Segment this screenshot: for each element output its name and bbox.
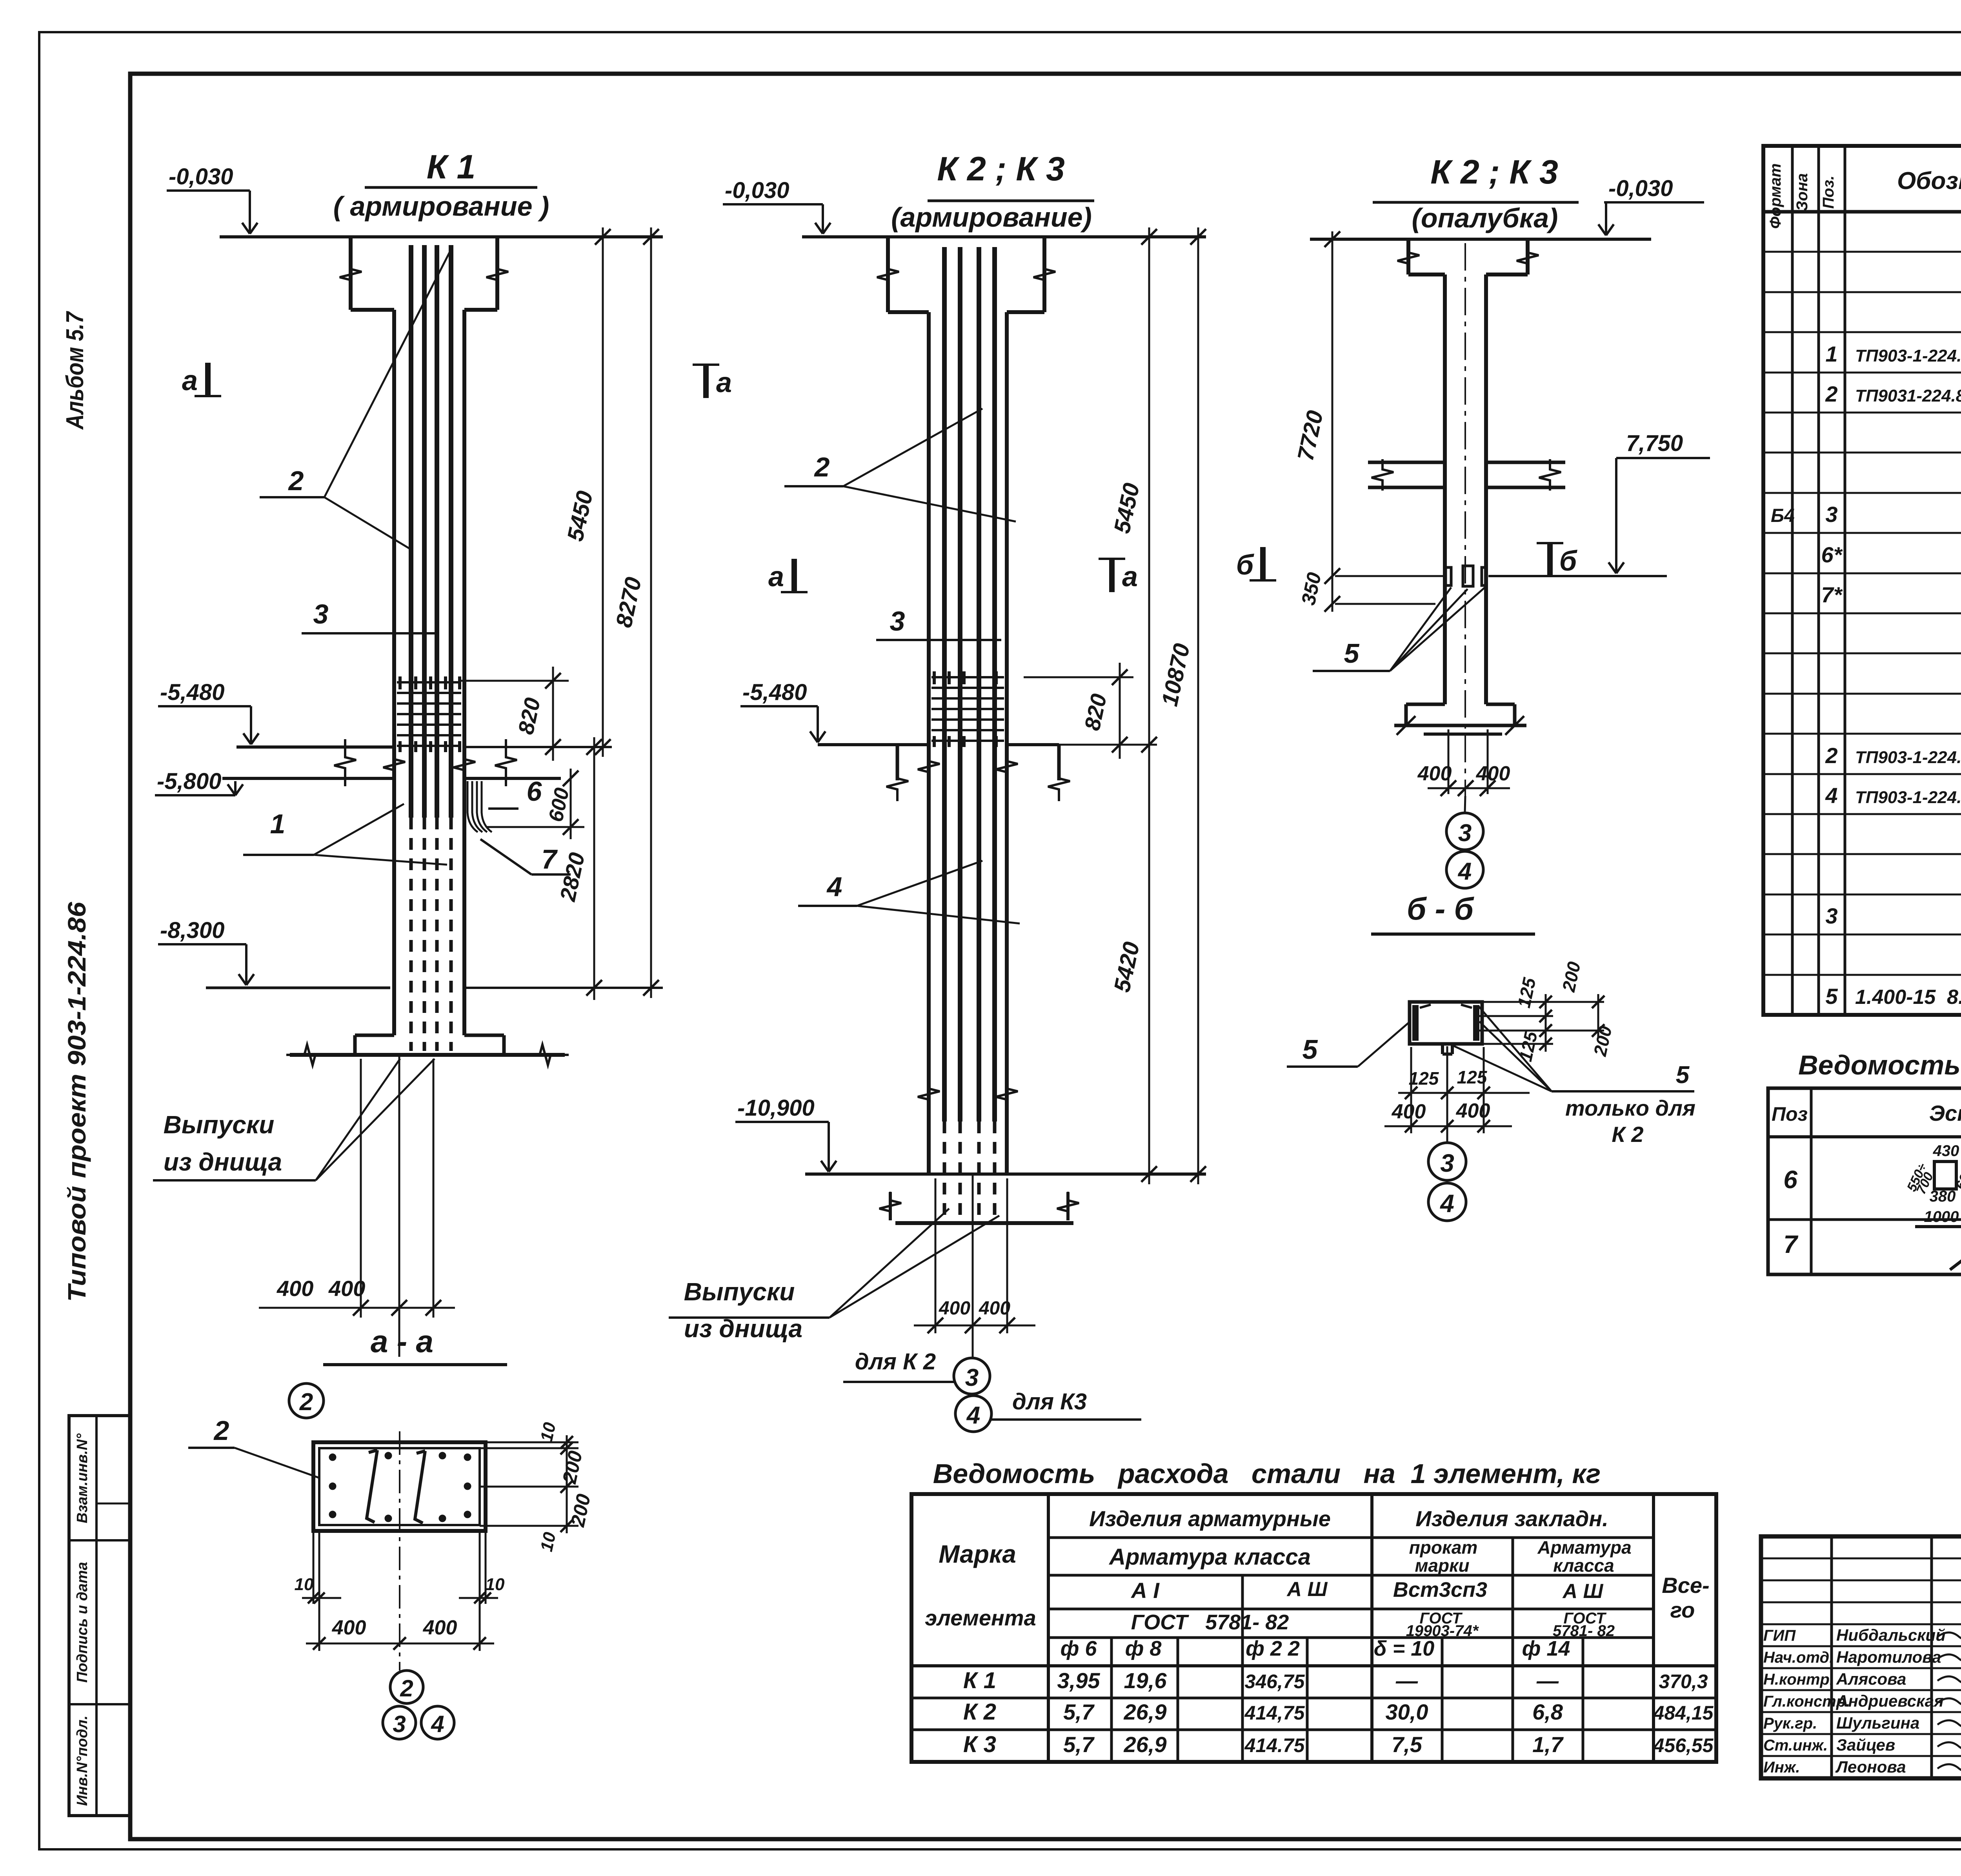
K2 ground line [802,235,1206,238]
svg-text:6*: 6* [1821,542,1843,567]
K1 section mark a left [205,363,211,396]
K2 dim 5420 [1148,745,1150,1184]
svg-text:5450: 5450 [1109,481,1144,536]
svg-text:ТП903-1-224.86 КЖ4И К 1.200: ТП903-1-224.86 КЖ4И К 1.200 [1855,748,1961,767]
svg-text:Арматура: Арматура [1537,1537,1631,1558]
svg-text:Алясова: Алясова [1836,1670,1906,1688]
svg-text:820: 820 [513,696,545,736]
svg-text:Выпуски: Выпуски [684,1278,795,1306]
svg-text:-5,480: -5,480 [160,680,224,705]
svg-text:К 2 ; К 3: К 2 ; К 3 [937,150,1065,188]
svg-text:ф 6: ф 6 [1061,1637,1097,1660]
a-a bottom dims [313,1531,315,1604]
svg-text:7,750: 7,750 [1626,431,1683,456]
svg-text:200: 200 [1590,1024,1616,1058]
svg-text:ТП903-1-224.86 КЖ4.И К 2 100: ТП903-1-224.86 КЖ4.И К 2 100 [1855,788,1961,807]
svg-text:2820: 2820 [555,850,589,903]
svg-text:4: 4 [1439,1189,1454,1218]
title block frame [1761,1536,1961,1778]
svg-text:Обозначение: Обозначение [1897,167,1961,195]
opalubka embedded plates pos.5 [1446,567,1451,585]
svg-text:ТП903-1-224.86 КЖ4.И.Км1.100: ТП903-1-224.86 КЖ4.И.Км1.100 [1855,346,1961,365]
svg-text:Ведомость расхода стали: Ведомость расхода стали на 1 элемент, кг [933,1458,1601,1489]
svg-text:1: 1 [1825,342,1837,366]
svg-text:3: 3 [1825,502,1837,527]
svg-text:Леонова: Леонова [1835,1758,1906,1776]
svg-text:400: 400 [1392,1100,1426,1123]
svg-text:400: 400 [939,1298,970,1319]
K2 section mark a mid-right [1109,559,1115,592]
K2 dims 400 400 under footing [935,1178,937,1333]
svg-text:Арматура класса: Арматура класса [1108,1544,1311,1570]
svg-text:2: 2 [1825,382,1837,406]
svg-text:—: — [1395,1668,1418,1693]
svg-text:400: 400 [1417,762,1452,785]
svg-text:марки: марки [1415,1555,1469,1576]
opalubka dims 400 400 [1448,729,1450,794]
svg-text:26,9: 26,9 [1124,1732,1167,1757]
svg-text:—: — [1536,1668,1559,1693]
a-a rebar dots [329,1454,336,1461]
svg-text:5: 5 [1825,984,1838,1009]
svg-text:а: а [716,367,732,398]
a-a right dims [486,1442,578,1443]
svg-text:430: 430 [1933,1142,1959,1160]
a-a circled axis 4 [421,1706,454,1739]
svg-text:Эскиз: Эскиз [1929,1101,1961,1125]
svg-text:19,6: 19,6 [1124,1668,1167,1693]
svg-text:820: 820 [1079,692,1111,733]
K1 dim 600 [570,769,572,839]
K1 footing [355,1034,394,1037]
K2 section mark a mid-left [791,559,797,592]
svg-text:400: 400 [332,1616,366,1639]
svg-text:456,55: 456,55 [1653,1734,1714,1756]
K1 stirrup zone pos.3 [397,681,461,684]
opalubka ground line [1310,238,1651,241]
b-b bottom tab [1441,1044,1444,1054]
svg-text:а: а [182,365,198,396]
K1 dim 2820 [593,737,595,1000]
svg-text:Выпуски: Выпуски [164,1111,275,1139]
svg-text:400: 400 [328,1276,365,1301]
svg-text:10: 10 [486,1575,505,1594]
K1 dim 8270 [650,227,652,998]
svg-text:Инв.N°подл.: Инв.N°подл. [74,1716,91,1806]
svg-text:Б4: Б4 [1771,505,1795,526]
a-a inner box [319,1448,480,1525]
b-b bottom dims 125 125 [1410,1047,1412,1133]
svg-text:3: 3 [965,1364,979,1391]
svg-text:Ведомость деталей: Ведомость деталей [1798,1050,1961,1080]
svg-text:7720: 7720 [1293,408,1328,463]
b-b circled axis 4 [1428,1183,1466,1221]
svg-text:Зайцев: Зайцев [1836,1736,1895,1754]
svg-text:Вст3сп3: Вст3сп3 [1393,1578,1487,1602]
section mark b right of opalubka [1547,543,1553,576]
K1 pos.6 hook bundle [468,781,478,832]
opalubka middle console [1368,461,1445,464]
svg-text:400: 400 [277,1276,313,1301]
a-a circled axis 3 [383,1706,416,1739]
svg-text:5: 5 [1676,1062,1690,1089]
svg-text:7*: 7* [1821,582,1843,607]
svg-text:4: 4 [1457,858,1472,885]
svg-text:5,7: 5,7 [1063,1700,1095,1724]
svg-text:элемента: элемента [925,1605,1036,1630]
opalubka circled axis 3 [1446,813,1483,850]
svg-text:А Ш: А Ш [1562,1580,1604,1603]
svg-text:2: 2 [1825,743,1837,768]
svg-text:-5,800: -5,800 [157,769,221,794]
svg-text:5420: 5420 [1109,940,1144,994]
K2 circled axis 3 for K2 [954,1358,990,1394]
svg-text:-5,480: -5,480 [742,680,807,705]
svg-text:10870: 10870 [1157,641,1195,708]
svg-text:Все-: Все- [1662,1573,1709,1598]
K2 footing body [895,1221,1073,1225]
opalubka top flare [1406,239,1410,274]
svg-text:ф 8: ф 8 [1125,1637,1162,1660]
svg-text:Нибдальский: Нибдальский [1836,1626,1946,1644]
svg-text:Наротилова: Наротилова [1836,1648,1941,1666]
svg-text:4: 4 [966,1402,980,1429]
b-b box [1410,1002,1482,1044]
svg-text:7: 7 [1783,1230,1799,1258]
svg-text:3: 3 [890,606,905,636]
svg-text:600: 600 [544,786,574,824]
svg-text:б: б [1236,549,1255,581]
svg-text:-8,300: -8,300 [160,918,224,943]
svg-text:б: б [1559,545,1578,577]
svg-text:Типовой проект 903-1-224.86: Типовой проект 903-1-224.86 [63,902,91,1302]
K1 circled axis 2 [289,1383,324,1418]
svg-text:4: 4 [826,871,842,902]
steel table frame [911,1494,1716,1762]
vedomost detaley table [1768,1088,1961,1274]
svg-text:δ = 10: δ = 10 [1374,1637,1435,1660]
left margin stamp boxes [69,1416,130,1816]
svg-text:3: 3 [393,1711,406,1737]
svg-text:5: 5 [1302,1034,1318,1065]
K1 upper column outline [349,237,353,310]
specification table frame [1763,146,1961,1015]
svg-text:125: 125 [1409,1068,1439,1089]
opalubka bottom flare [1406,703,1445,706]
svg-text:125: 125 [1513,975,1540,1009]
svg-text:6: 6 [527,776,542,807]
svg-text:1000: 1000 [1924,1208,1959,1225]
svg-text:Андриевская: Андриевская [1836,1692,1944,1710]
K2 dim 5450 [1148,227,1150,757]
svg-text:8270: 8270 [611,575,646,630]
K2 footing at -10,900 [805,1172,1206,1176]
svg-text:4: 4 [431,1711,444,1737]
svg-text:( армирование ): ( армирование ) [333,191,549,222]
K2 dim 820 [1024,676,1133,678]
svg-text:-0,030: -0,030 [725,178,789,203]
svg-text:ТП9031-224.86 КЖ4.И.Км1.200: ТП9031-224.86 КЖ4.И.Км1.200 [1855,386,1961,405]
svg-text:Зона: Зона [1794,173,1811,211]
svg-text:прокат: прокат [1409,1537,1478,1558]
svg-text:-10,900: -10,900 [737,1095,815,1121]
svg-text:ф 2 2: ф 2 2 [1246,1637,1300,1660]
svg-text:ф 14: ф 14 [1522,1637,1570,1660]
svg-text:Инж.: Инж. [1763,1759,1800,1776]
svg-text:го: го [1670,1598,1695,1622]
svg-text:Рук.гр.: Рук.гр. [1763,1715,1817,1732]
svg-text:Формат: Формат [1767,164,1784,229]
K2 lower column outline [927,312,931,1174]
svg-text:Поз.: Поз. [1820,176,1837,209]
svg-text:Изделия арматурные: Изделия арматурные [1089,1506,1331,1531]
K2 slab stubs at -5,480 [818,743,929,746]
svg-text:(армирование): (армирование) [891,202,1092,233]
opalubka dim 350 [1324,596,1340,612]
svg-text:-0,030: -0,030 [1608,176,1673,201]
svg-text:200: 200 [558,1449,586,1486]
svg-text:370,3: 370,3 [1659,1671,1708,1692]
svg-text:484,15: 484,15 [1653,1702,1714,1724]
svg-text:380: 380 [1930,1188,1956,1205]
svg-text:10: 10 [537,1530,560,1553]
K1 slab at -5,480 [236,745,394,749]
svg-text:1,7: 1,7 [1532,1732,1564,1757]
svg-text:2: 2 [814,452,830,482]
svg-text:125: 125 [1457,1067,1488,1087]
svg-text:Изделия закладн.: Изделия закладн. [1415,1506,1608,1531]
K1 ground line -0,030 [220,235,663,238]
K1 lower column outline [392,310,396,1035]
svg-text:К 1: К 1 [427,148,476,186]
svg-text:2: 2 [213,1415,229,1446]
svg-text:а - а: а - а [371,1324,433,1359]
svg-text:3: 3 [313,599,329,629]
svg-text:30,0: 30,0 [1386,1700,1428,1724]
svg-text:400: 400 [979,1298,1010,1319]
svg-text:-0,030: -0,030 [169,164,233,189]
svg-text:Подпись и дата: Подпись и дата [74,1562,91,1683]
svg-text:400: 400 [423,1616,457,1639]
K2 dim 10870 [1197,227,1199,1184]
svg-text:3,95: 3,95 [1057,1668,1101,1693]
svg-text:1.400-15 8.1: 1.400-15 8.1 [1855,986,1961,1009]
svg-text:400: 400 [1476,762,1510,785]
svg-text:К 2: К 2 [963,1699,996,1725]
svg-text:200: 200 [1558,960,1584,994]
a-a stirrup hooks [367,1450,377,1522]
svg-text:Нач.отд.: Нач.отд. [1763,1649,1834,1666]
svg-text:класса: класса [1553,1555,1614,1576]
svg-text:3: 3 [1825,903,1837,928]
svg-text:Шульгина: Шульгина [1836,1714,1919,1732]
K1 dim 5450 [602,227,604,757]
svg-text:для К3: для К3 [1012,1389,1087,1414]
svg-text:414,75: 414,75 [1244,1702,1305,1724]
K2 stirrup zone [931,676,1004,678]
svg-text:К 2 ; К 3: К 2 ; К 3 [1430,153,1558,191]
svg-text:только для: только для [1565,1096,1695,1120]
svg-text:200: 200 [566,1492,595,1529]
svg-text:1: 1 [270,809,286,839]
svg-text:7: 7 [542,844,558,874]
b-b right dims 125 200 [1482,1001,1604,1003]
b-b bottom dims 400 400 [1384,1125,1512,1127]
b-b right leaders 5 tolko dlya K2 [1479,1006,1552,1091]
svg-text:А Ш: А Ш [1286,1578,1328,1601]
svg-text:4: 4 [1825,783,1837,808]
svg-text:К 3: К 3 [963,1732,996,1757]
section mark b left of opalubka [1260,547,1266,580]
opalubka shaft [1443,274,1447,704]
svg-text:К 2: К 2 [1612,1122,1643,1147]
svg-text:а: а [768,561,784,593]
svg-text:125: 125 [1515,1029,1541,1063]
svg-text:6,8: 6,8 [1532,1700,1563,1724]
svg-text:5,7: 5,7 [1063,1732,1095,1757]
svg-text:ГИП: ГИП [1763,1627,1796,1644]
svg-text:из днища: из днища [164,1148,282,1176]
svg-text:А I: А I [1130,1578,1160,1603]
svg-text:7,5: 7,5 [1392,1732,1423,1757]
opalubka dim 7720 [1332,231,1333,612]
K2 circled axis 4 for K3 [955,1396,991,1432]
K1 rebar pos.2 vertical bars [409,245,413,818]
svg-text:Н.контр.: Н.контр. [1763,1671,1834,1688]
svg-text:10: 10 [295,1575,314,1594]
svg-text:2: 2 [288,465,304,496]
svg-text:350: 350 [1297,571,1325,607]
opalubka centerline [1464,243,1466,796]
svg-text:(опалубка): (опалубка) [1412,203,1558,233]
svg-text:6: 6 [1783,1165,1797,1194]
K2 upper column outline [886,237,890,312]
svg-text:10: 10 [537,1420,560,1443]
opalubka circled axis 4 [1446,851,1483,888]
svg-text:3: 3 [1440,1149,1454,1177]
svg-text:а: а [1122,561,1138,593]
svg-text:5450: 5450 [562,489,598,544]
svg-text:400: 400 [1456,1100,1490,1122]
svg-text:для К 2: для К 2 [855,1349,936,1374]
svg-text:3: 3 [1458,820,1472,847]
K1 dim 820 [459,680,569,682]
svg-text:2: 2 [299,1389,313,1416]
svg-text:К 1: К 1 [963,1668,996,1693]
svg-text:5: 5 [1344,638,1360,669]
svg-text:26,9: 26,9 [1124,1700,1167,1724]
svg-text:Ст.инж.: Ст.инж. [1763,1737,1828,1754]
a-a centerline [399,1431,400,1671]
svg-text:2: 2 [400,1675,413,1701]
K2 rebar pos.2/4 bars [942,247,947,1122]
a-a circled axis 2 [390,1671,423,1703]
svg-text:Альбом 5.7: Альбом 5.7 [62,311,89,430]
svg-text:Взам.инв.N°: Взам.инв.N° [74,1433,91,1523]
svg-text:346,75: 346,75 [1245,1671,1305,1692]
svg-text:Поз: Поз [1772,1103,1808,1125]
a-a outer box [313,1442,486,1531]
K1 dims 400 400 under footing [360,1059,362,1318]
svg-text:ГОСТ 5781- 82: ГОСТ 5781- 82 [1131,1611,1289,1634]
svg-text:Марка: Марка [939,1540,1016,1568]
svg-text:б - б: б - б [1407,891,1475,926]
b-b circled axis 3 [1428,1143,1466,1180]
K2 section mark a top-left [703,365,709,398]
svg-text:414.75: 414.75 [1244,1734,1305,1756]
